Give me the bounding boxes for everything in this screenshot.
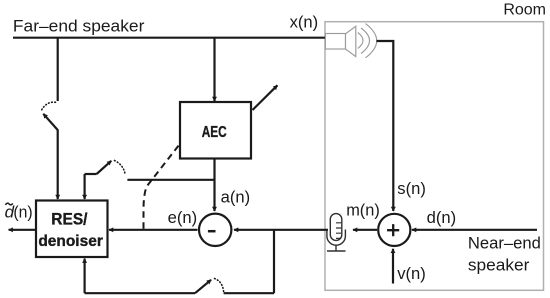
room box	[325, 22, 544, 291]
block RES/denoiser	[36, 201, 108, 258]
svg-text:m(n): m(n)	[346, 201, 380, 219]
adder circle	[378, 214, 410, 246]
wire noise v(n)	[392, 249, 394, 284]
svg-text:Far–end speaker: Far–end speaker	[13, 17, 145, 36]
wire switch S1 to RES	[57, 130, 59, 200]
wire S2 contact to a(n) line	[127, 179, 214, 181]
minus sign	[208, 230, 216, 233]
wire far-end to AEC	[213, 38, 215, 101]
adaptation arrow on AEC	[253, 85, 278, 110]
plus sign	[387, 224, 399, 236]
switch S2 stub	[85, 173, 97, 175]
dashed control e(n) to AEC	[144, 145, 180, 229]
wire bottom to RES	[83, 259, 85, 294]
wire adder to mic	[353, 229, 377, 231]
switch S2 wire to RES top	[83, 174, 85, 199]
wire junction down	[273, 230, 275, 293]
svg-text:v(n): v(n)	[397, 264, 426, 283]
svg-text:Room: Room	[503, 2, 546, 19]
switch S3 arc	[215, 279, 224, 292]
switch S2 blade	[97, 161, 112, 174]
wire subtractor to RES e(n)	[109, 229, 198, 231]
switch S1 arc	[41, 102, 55, 111]
svg-text:Near–end: Near–end	[468, 234, 541, 253]
wire AEC to subtractor a(n)	[213, 159, 215, 212]
block AEC	[180, 102, 251, 159]
svg-text:a(n): a(n)	[221, 187, 251, 206]
switch S3 blade	[195, 280, 211, 293]
switch S2 arc	[115, 161, 126, 174]
wire speaker to adder	[377, 41, 394, 211]
svg-text:AEC: AEC	[202, 124, 227, 141]
speaker icon	[325, 24, 376, 58]
wire bottom left segment	[85, 292, 195, 294]
wire RES output	[9, 229, 36, 231]
wire mic to subtractor m(n)	[234, 229, 328, 231]
switch S1 blade	[43, 114, 57, 130]
wire bottom right segment	[224, 292, 274, 294]
wire far-end bus	[13, 37, 326, 39]
svg-text:(n): (n)	[13, 203, 32, 221]
subtractor circle	[199, 214, 231, 246]
svg-text:s(n): s(n)	[397, 179, 426, 198]
svg-text:x(n): x(n)	[290, 13, 319, 32]
wire far-end to switch S1	[57, 38, 59, 101]
microphone icon	[327, 214, 346, 251]
svg-text:denoiser: denoiser	[38, 233, 103, 250]
svg-text:speaker: speaker	[468, 255, 530, 274]
svg-text:e(n): e(n)	[168, 208, 198, 227]
svg-text:d(n): d(n)	[427, 208, 457, 227]
svg-text:RES/: RES/	[51, 211, 88, 229]
wire near-end d(n)	[412, 229, 537, 231]
